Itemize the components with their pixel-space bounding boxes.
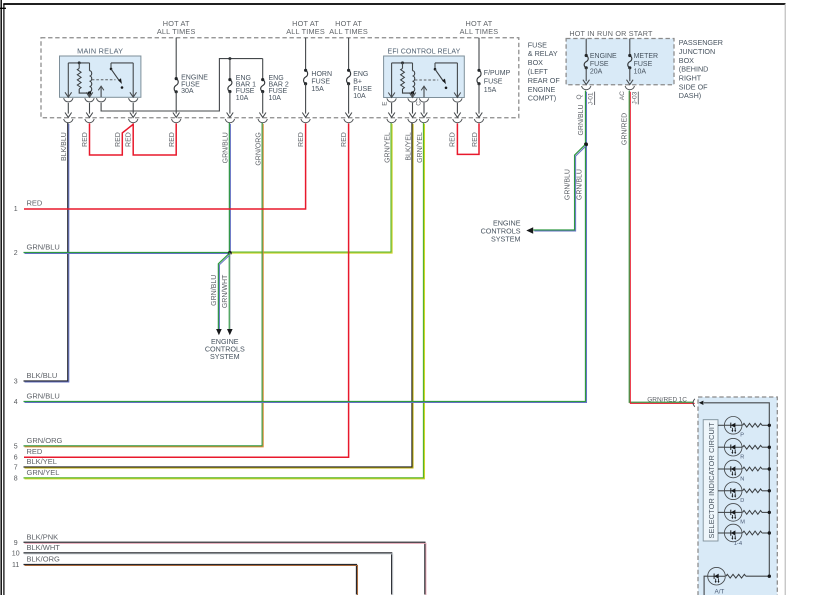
svg-text:GRN/BLU: GRN/BLU (27, 243, 60, 252)
svg-text:D: D (740, 498, 744, 504)
svg-text:SIDE OF: SIDE OF (679, 82, 708, 91)
svg-text:A/T: A/T (715, 589, 725, 595)
svg-text:RED: RED (298, 132, 305, 147)
svg-text:RED: RED (27, 199, 43, 208)
svg-text:GRN/BLU: GRN/BLU (27, 392, 60, 401)
svg-text:1: 1 (14, 206, 18, 213)
svg-text:BOX: BOX (528, 58, 543, 67)
svg-text:1-4: 1-4 (734, 541, 743, 547)
svg-text:GRN/WHT: GRN/WHT (222, 274, 229, 308)
svg-text:RED: RED (341, 132, 348, 147)
svg-text:GRN/YEL: GRN/YEL (385, 132, 392, 163)
svg-text:(LEFT: (LEFT (528, 67, 549, 76)
svg-text:RED: RED (169, 132, 176, 147)
svg-text:FUSE: FUSE (311, 78, 330, 85)
svg-text:ALL TIMES: ALL TIMES (286, 27, 325, 36)
svg-text:F/PUMP: F/PUMP (484, 70, 511, 77)
svg-text:FUSE: FUSE (353, 86, 372, 93)
svg-text:B+: B+ (353, 78, 362, 85)
svg-text:ALL TIMES: ALL TIMES (460, 27, 499, 36)
svg-text:10A: 10A (353, 93, 366, 100)
svg-text:5: 5 (14, 444, 18, 451)
svg-text:GRN/YEL: GRN/YEL (417, 132, 424, 163)
svg-text:GRN/BLU: GRN/BLU (223, 132, 230, 163)
svg-text:2: 2 (14, 250, 18, 257)
svg-text:FUSE: FUSE (590, 61, 609, 68)
svg-text:BLK/YEL: BLK/YEL (27, 457, 57, 466)
svg-text:BLK/WHT: BLK/WHT (27, 543, 61, 552)
svg-text:GRN/ORG: GRN/ORG (27, 436, 63, 445)
svg-text:1C: 1C (679, 396, 688, 403)
svg-text:6: 6 (14, 454, 18, 461)
svg-text:GRN/RED: GRN/RED (647, 396, 677, 403)
svg-text:AC: AC (619, 91, 626, 100)
svg-text:GRN/RED: GRN/RED (621, 113, 628, 145)
svg-text:ENGINE: ENGINE (590, 53, 617, 60)
svg-text:15A: 15A (311, 86, 324, 93)
svg-text:10A: 10A (269, 95, 282, 102)
svg-text:J-01: J-01 (588, 92, 595, 105)
svg-text:10A: 10A (634, 68, 647, 75)
svg-text:SYSTEM: SYSTEM (491, 235, 521, 244)
svg-text:J-03: J-03 (631, 91, 638, 104)
svg-text:PASSENGER: PASSENGER (679, 38, 723, 47)
svg-text:11: 11 (12, 562, 19, 569)
svg-text:SELECTOR INDICATOR CIRCUIT: SELECTOR INDICATOR CIRCUIT (707, 422, 716, 539)
svg-text:GRN/ORG: GRN/ORG (255, 132, 262, 165)
svg-text:HOT IN RUN OR START: HOT IN RUN OR START (569, 29, 653, 38)
svg-text:JUNCTION: JUNCTION (679, 47, 715, 56)
svg-text:15A: 15A (484, 87, 497, 94)
svg-text:DASH): DASH) (679, 91, 701, 100)
svg-text:ENG: ENG (353, 71, 368, 78)
svg-text:HORN: HORN (311, 71, 332, 78)
svg-text:FUSE: FUSE (528, 40, 547, 49)
svg-text:8: 8 (14, 476, 18, 483)
svg-text:GRN/BLU: GRN/BLU (565, 169, 572, 200)
svg-text:GRN/BLU: GRN/BLU (578, 104, 585, 135)
svg-text:RED: RED (115, 132, 122, 147)
svg-text:GRN/BLU: GRN/BLU (577, 169, 584, 200)
svg-text:FUSE: FUSE (634, 61, 653, 68)
svg-text:BLK/BLU: BLK/BLU (61, 132, 68, 161)
svg-text:BLK/PNK: BLK/PNK (27, 533, 59, 542)
svg-text:7: 7 (14, 465, 18, 472)
svg-text:10A: 10A (236, 95, 249, 102)
svg-text:RED: RED (27, 447, 43, 456)
svg-text:N: N (740, 476, 744, 482)
svg-text:RED: RED (82, 132, 89, 147)
svg-text:RIGHT: RIGHT (679, 74, 702, 83)
svg-text:(BEHIND: (BEHIND (679, 65, 709, 74)
svg-text:3: 3 (14, 379, 18, 386)
svg-text:RED: RED (450, 132, 457, 147)
svg-text:Q: Q (576, 94, 583, 99)
svg-text:BOX: BOX (679, 56, 694, 65)
svg-text:4: 4 (14, 399, 18, 406)
svg-text:30A: 30A (181, 88, 194, 95)
svg-text:COMPT): COMPT) (528, 94, 556, 103)
svg-text:SYSTEM: SYSTEM (210, 352, 240, 361)
svg-text:GRN/BLU: GRN/BLU (211, 275, 218, 306)
svg-text:ENGINE: ENGINE (528, 85, 556, 94)
svg-text:20A: 20A (590, 68, 603, 75)
svg-text:BLK/ORG: BLK/ORG (27, 555, 61, 564)
svg-text:P: P (740, 433, 744, 439)
svg-text:RED: RED (472, 132, 479, 147)
svg-text:BLK/BLU: BLK/BLU (27, 371, 58, 380)
svg-text:METER: METER (634, 53, 659, 60)
svg-text:GRN/YEL: GRN/YEL (27, 468, 60, 477)
svg-text:FUSE: FUSE (484, 78, 503, 85)
svg-text:ALL TIMES: ALL TIMES (157, 27, 196, 36)
svg-text:BLK/YEL: BLK/YEL (405, 132, 412, 161)
svg-text:ALL TIMES: ALL TIMES (329, 27, 368, 36)
svg-text:R: R (740, 455, 744, 461)
svg-text:RED: RED (126, 132, 133, 147)
svg-text:REAR OF: REAR OF (528, 76, 561, 85)
svg-text:M: M (740, 520, 745, 526)
svg-text:EFI CONTROL RELAY: EFI CONTROL RELAY (388, 49, 461, 56)
svg-text:& RELAY: & RELAY (528, 49, 558, 58)
svg-text:10: 10 (12, 551, 20, 558)
svg-text:E: E (381, 102, 388, 106)
svg-text:MAIN RELAY: MAIN RELAY (77, 46, 123, 55)
svg-text:9: 9 (14, 540, 18, 547)
